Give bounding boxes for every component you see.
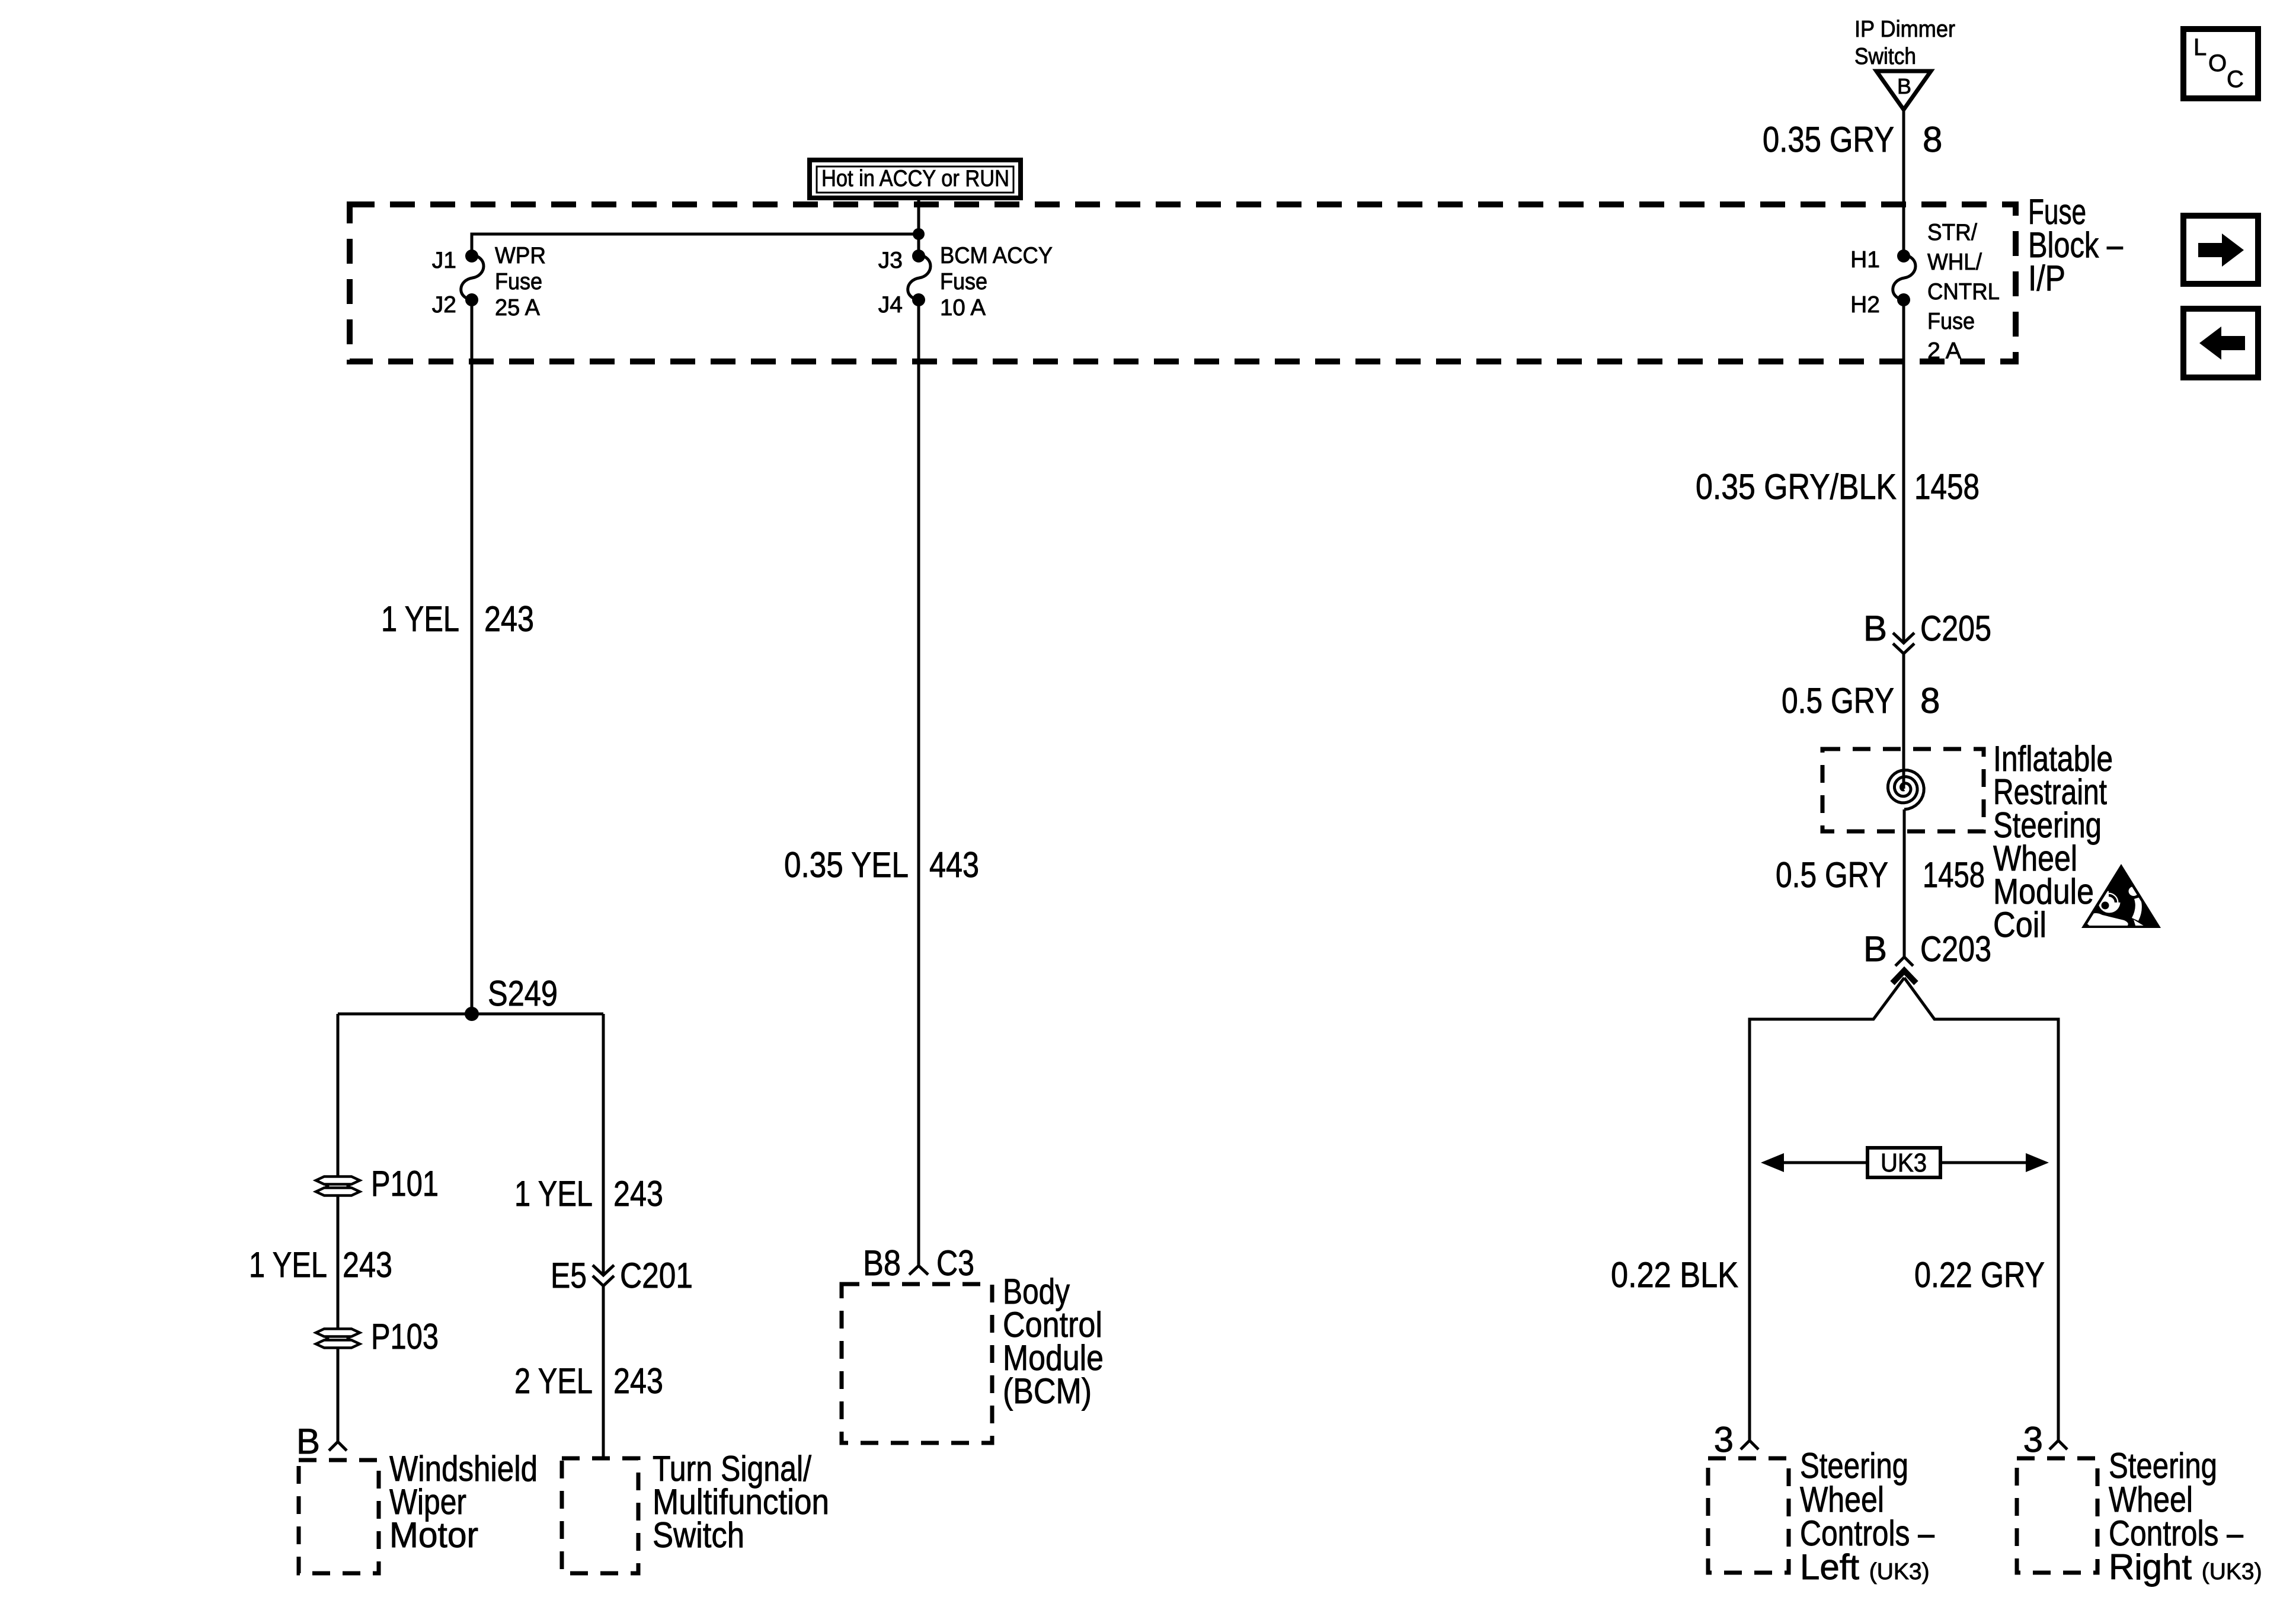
svg-text:E5: E5 — [551, 1256, 587, 1295]
svg-text:STR/: STR/ — [1927, 220, 1977, 245]
fuse block I/P dashed box — [350, 204, 2016, 361]
airbag warning triangle — [2081, 864, 2161, 928]
connector B8 C3 at BCM — [909, 1266, 928, 1275]
wire: between P101 and P103 — [337, 1196, 340, 1329]
svg-text:1 YEL: 1 YEL — [249, 1245, 327, 1285]
svg-text:10 A: 10 A — [940, 295, 986, 321]
fuse WPR J1 dot — [465, 249, 478, 263]
svg-text:UK3: UK3 — [1881, 1148, 1927, 1177]
svg-text:I/P: I/P — [2028, 258, 2065, 298]
svg-text:C: C — [2227, 66, 2244, 92]
coil spiral — [1888, 770, 1924, 809]
svg-text:H1: H1 — [1850, 247, 1880, 273]
svg-text:J2: J2 — [432, 292, 456, 318]
svg-text:C3: C3 — [936, 1243, 974, 1283]
svg-text:Fuse: Fuse — [495, 269, 542, 295]
svg-text:8: 8 — [1920, 681, 1940, 721]
svg-text:H2: H2 — [1850, 292, 1880, 318]
fuse STR/WHL/CNTRL element — [1893, 255, 1916, 300]
svg-text:O: O — [2208, 50, 2227, 76]
fuse STR/WHL/CNTRL H1 dot — [1897, 249, 1910, 263]
svg-text:C205: C205 — [1920, 609, 1991, 648]
wire: left branch top — [337, 1014, 340, 1176]
connector B C205 — [1893, 633, 1914, 654]
IP dimmer switch triangle B — [1876, 71, 1931, 110]
svg-text:B: B — [296, 1422, 320, 1461]
svg-text:L: L — [2193, 34, 2207, 60]
svg-text:0.22 BLK: 0.22 BLK — [1611, 1255, 1738, 1295]
svg-text:C201: C201 — [620, 1256, 693, 1295]
svg-text:B: B — [1863, 609, 1887, 648]
svg-text:1458: 1458 — [1914, 467, 1980, 507]
svg-text:1 YEL: 1 YEL — [514, 1174, 593, 1214]
svg-text:0.22 GRY: 0.22 GRY — [1914, 1255, 2045, 1295]
connector P101 — [316, 1177, 360, 1196]
svg-text:J3: J3 — [878, 248, 903, 273]
left arrow legend box — [2183, 309, 2258, 377]
Hot in ACCY or RUN box — [810, 160, 1021, 198]
connector E5 C201 — [593, 1265, 614, 1286]
connector P103 — [316, 1329, 360, 1348]
svg-text:243: 243 — [613, 1361, 663, 1401]
svg-text:243: 243 — [613, 1174, 663, 1214]
inflatable restraint coil dashed box — [1822, 749, 1984, 831]
svg-text:Switch: Switch — [653, 1515, 744, 1555]
fuse WPR J2 dot — [465, 293, 478, 306]
wire: Hot box to junction — [917, 199, 920, 257]
svg-text:1 YEL: 1 YEL — [381, 599, 459, 639]
connector 3 at SWC right — [2049, 1441, 2067, 1449]
connector B C203 — [1892, 957, 1916, 983]
splice S249 bus wire — [338, 1013, 603, 1016]
svg-text:0.35 GRY: 0.35 GRY — [1763, 120, 1894, 159]
svg-text:WHL/: WHL/ — [1927, 249, 1982, 275]
svg-text:Motor: Motor — [389, 1515, 478, 1555]
svg-text:1458: 1458 — [1923, 855, 1985, 895]
svg-text:B: B — [1897, 74, 1911, 98]
svg-text:Coil: Coil — [1993, 905, 2046, 945]
fuse BCM ACCY J4 dot — [912, 293, 925, 306]
windshield wiper motor dashed box — [299, 1460, 379, 1573]
connector B at wiper motor — [329, 1442, 347, 1451]
svg-text:0.35 GRY/BLK: 0.35 GRY/BLK — [1696, 467, 1897, 507]
svg-text:0.5 GRY: 0.5 GRY — [1782, 681, 1894, 721]
svg-text:3: 3 — [1714, 1420, 1734, 1459]
wire: right branch of S249 — [602, 1014, 605, 1275]
svg-text:8: 8 — [1923, 120, 1942, 159]
wire: P103 down to connector B — [337, 1348, 340, 1442]
body control module dashed box — [842, 1284, 992, 1443]
splice S249 dot — [465, 1007, 479, 1021]
svg-text:C203: C203 — [1920, 929, 1991, 969]
svg-text:P101: P101 — [371, 1164, 439, 1204]
wire: horizontal junction to WPR fuse branch — [472, 234, 919, 257]
svg-text:0.35 YEL: 0.35 YEL — [784, 845, 909, 885]
wire: coil to C203 — [1903, 809, 1906, 957]
svg-text:3: 3 — [2023, 1420, 2043, 1459]
svg-text:243: 243 — [484, 599, 534, 639]
UK3 range arrow — [1761, 1148, 2049, 1177]
svg-text:Fuse: Fuse — [940, 269, 987, 295]
wire: J4 down to BCM — [917, 300, 920, 1266]
svg-text:J1: J1 — [432, 248, 456, 273]
svg-text:443: 443 — [929, 845, 979, 885]
wire: H2 down to C205 — [1902, 300, 1905, 643]
LOC legend box — [2183, 29, 2258, 98]
svg-text:B: B — [1863, 929, 1887, 969]
wire: triangle to H1 — [1902, 110, 1905, 257]
steering wheel controls right dashed box — [2017, 1458, 2097, 1573]
svg-text:B8: B8 — [863, 1243, 901, 1283]
svg-text:25 A: 25 A — [495, 295, 540, 321]
svg-text:2 YEL: 2 YEL — [514, 1361, 593, 1401]
fuse BCM ACCY element — [908, 255, 930, 300]
turn signal / multifunction switch dashed box — [562, 1458, 638, 1573]
svg-text:BCM ACCY: BCM ACCY — [940, 243, 1053, 268]
svg-text:CNTRL: CNTRL — [1927, 279, 2000, 305]
wire: C205 to coil — [1902, 654, 1905, 789]
right arrow legend box — [2183, 216, 2258, 284]
svg-text:0.5 GRY: 0.5 GRY — [1776, 855, 1888, 895]
connector 3 at SWC left — [1741, 1441, 1758, 1449]
svg-text:IP Dimmer: IP Dimmer — [1854, 17, 1955, 42]
wire: Y split to left/right steering wheel controls — [1750, 978, 1904, 1441]
svg-text:Hot in ACCY or RUN: Hot in ACCY or RUN — [821, 166, 1009, 191]
svg-text:Switch: Switch — [1854, 44, 1916, 69]
wire: C201 to turn signal switch — [602, 1286, 605, 1458]
svg-text:Fuse: Fuse — [1927, 309, 1975, 334]
svg-text:2 A: 2 A — [1927, 338, 1961, 364]
svg-text:(BCM): (BCM) — [1003, 1371, 1092, 1411]
svg-text:243: 243 — [343, 1245, 392, 1285]
svg-text:S249: S249 — [488, 974, 558, 1013]
svg-text:P103: P103 — [371, 1317, 439, 1356]
svg-text:J4: J4 — [878, 292, 903, 318]
fuse WPR element — [461, 255, 484, 300]
fuse STR/WHL/CNTRL H2 dot — [1897, 293, 1910, 306]
node junction dot — [913, 228, 925, 240]
fuse BCM ACCY J3 dot — [912, 249, 925, 263]
svg-text:WPR: WPR — [495, 243, 546, 268]
steering wheel controls left dashed box — [1708, 1458, 1789, 1573]
wire: J2 down to S249 — [471, 300, 474, 1014]
